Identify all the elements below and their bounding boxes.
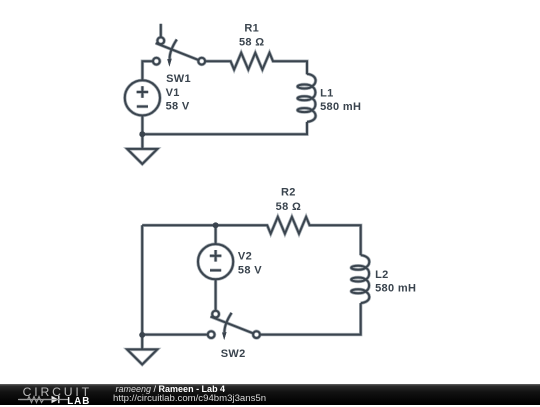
svg-text:580 mH: 580 mH	[320, 101, 361, 113]
svg-text:58 V: 58 V	[166, 101, 190, 113]
svg-text:L1: L1	[320, 87, 334, 99]
schematic soft underlay	[125, 24, 370, 365]
svg-text:SW1: SW1	[166, 73, 191, 85]
svg-text:SW2: SW2	[221, 348, 246, 360]
CircuitLab logo text	[23, 385, 92, 399]
svg-text:580 mH: 580 mH	[375, 283, 416, 295]
logo LAB	[67, 396, 90, 407]
svg-text:L2: L2	[375, 269, 389, 281]
footer url line	[113, 393, 266, 404]
logo resistor	[20, 397, 52, 403]
footer bar	[0, 384, 540, 405]
svg-text:58 Ω: 58 Ω	[276, 201, 302, 213]
svg-text:V2: V2	[238, 251, 252, 263]
logo schematic wire	[18, 394, 70, 405]
svg-text:58 V: 58 V	[238, 264, 262, 276]
svg-text:R2: R2	[281, 186, 296, 198]
svg-text:V1: V1	[166, 87, 180, 99]
svg-text:58 Ω: 58 Ω	[239, 36, 265, 48]
schematic ink	[125, 24, 370, 365]
logo diode	[52, 396, 59, 403]
footer title line	[116, 384, 226, 394]
svg-text:R1: R1	[244, 23, 259, 35]
